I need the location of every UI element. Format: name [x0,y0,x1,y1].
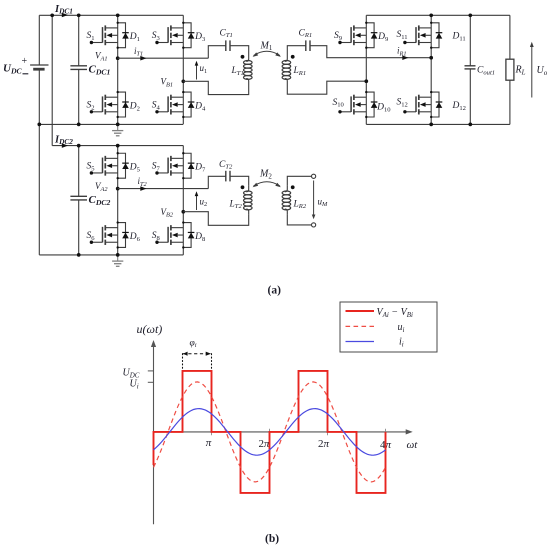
voltage arrow u_2 [196,195,198,211]
ground bridge 1 [112,124,123,135]
node V_A2 [116,187,120,191]
current arrow i_T1 [140,56,146,61]
svg-text:2π: 2π [318,438,330,450]
transistor S12 [403,91,442,118]
polarity dot L_R2 [291,185,295,189]
wire L_R1 top to C_R1 [287,46,306,56]
transistor S6 [90,221,129,248]
capacitor C_T1 [225,40,227,51]
sine i_i [154,409,386,456]
axis x [154,431,409,433]
square wave V_Ai - V_Bi [154,371,386,493]
capacitor C_T2 [225,171,227,182]
wire vertical feed to bridge 2 [51,15,53,145]
sine u_i dashed [154,382,386,482]
svg-text:(b): (b) [265,533,279,545]
wire tank1 receiver bottom [287,81,366,94]
wire receiver top rail [366,14,510,16]
voltage arrow u_M [313,181,315,216]
dotted verticals pulse edges [182,354,184,432]
wire L_R2 to terminals [287,176,311,186]
wire tank2 top [208,176,226,188]
terminal circles [312,174,316,178]
axis ticks x [211,429,213,436]
battery upper lead [38,15,40,65]
mutual coupling M1 [254,51,281,55]
wire bottom rail system 2 [39,254,183,256]
junction dots rails [50,13,54,17]
wire top rail system 1 [39,14,183,16]
capacitor C_out1 [469,15,471,66]
legend entry u_i [346,325,375,327]
axis y [153,345,155,524]
inductor L_T1 [244,55,253,84]
svg-text:+: + [22,56,28,67]
node receiver right mid [429,56,433,60]
wire tank1 top [208,46,226,59]
capacitor C_DC2 [78,146,80,197]
wire bottom rail system 1 [39,123,183,125]
wire C_T2 to coil [230,176,249,186]
resistor R_L [509,15,511,59]
current arrow I_DC1 [62,13,68,18]
wire V_A1 to tank [118,57,209,59]
node V_B1 [181,79,185,83]
wire C_R1 to receiver bridge [310,46,431,58]
legend entry V_Ai-V_Bi [346,310,375,312]
wire tank2 bottom [183,212,248,226]
voltage arrow U_o [531,46,533,98]
polarity dot L_T1 [241,55,245,59]
transistor S5 [90,152,129,179]
current arrow I_DC2 [62,143,68,148]
transistor S2 [90,91,129,118]
transistor S4 [155,91,194,118]
svg-text:(a): (a) [268,284,282,296]
wire receiver bottom rail [366,123,510,125]
battery lower lead down to bottom rails [38,70,40,255]
ground bridge 2 [112,255,123,266]
wire bridge2 right leg [182,146,184,255]
transistor S11 [403,22,442,49]
svg-text:2π: 2π [258,438,270,450]
wire receiver bridge right leg [430,15,432,124]
node V_A1 [116,56,120,60]
wire receiver bridge left leg [365,15,367,124]
inductor L_T2 [244,186,253,215]
transistor S9 [338,22,377,49]
voltage arrow u_1 [196,64,198,80]
svg-text:π: π [206,437,212,449]
current arrow i_R1 [402,55,408,60]
transistor S7 [155,152,194,179]
inductor L_R2 [282,186,291,215]
transistor S3 [155,22,194,49]
node receiver left mid [364,79,368,83]
wire I_DC2 rail [52,145,183,147]
capacitor C_DC1 [78,15,80,66]
wire C_T1 to coil [230,46,249,56]
wire bridge2 left leg [117,146,119,255]
mutual coupling M2 [254,182,281,186]
wire V_A2 to tank2 [118,188,209,190]
inductor L_R1 [282,55,291,84]
phi_i annotation [183,353,212,355]
transistor S10 [338,91,377,118]
svg-text:ωt: ωt [407,439,419,451]
wire tank1 bottom [183,81,248,94]
transistor S1 [90,22,129,49]
capacitor C_R1 [305,40,307,51]
current arrow i_T2 [140,186,146,191]
wire bridge1 right leg [182,15,184,124]
legend entry i_i [346,341,375,343]
node V_B2 [181,210,185,214]
wire bridge1 left leg [117,15,119,124]
transistor S8 [155,221,194,248]
polarity dot L_T2 [241,185,245,189]
svg-text:u(ωt): u(ωt) [137,322,163,336]
polarity dot L_R1 [291,55,295,59]
battery U_DC [30,64,48,66]
legend box [340,302,437,352]
axis ticks y + labels [148,370,154,372]
